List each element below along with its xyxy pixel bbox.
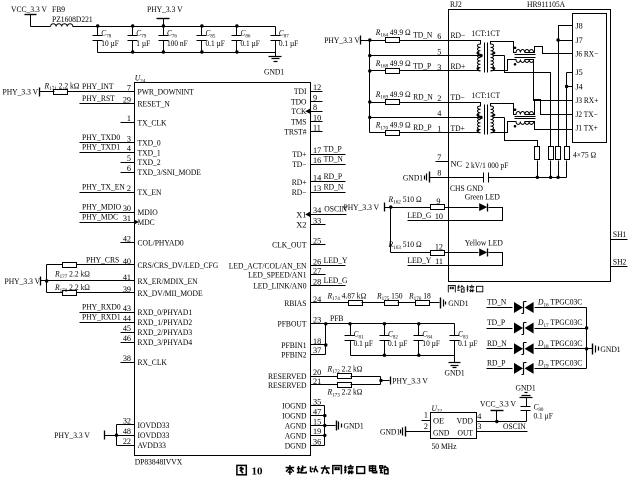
svg-text:AGND: AGND [285,431,307,440]
wire U22 pin1 OE stub [422,410,431,420]
power PHY_3.3V (RESERVED) [391,377,428,386]
pin 33 X2 [296,216,321,229]
svg-text:GND: GND [433,428,449,437]
wire PHY_INT to pin7 [40,82,135,92]
wire J8 J7 unused pair termination [556,26,572,147]
pin 25 CLK_OUT [272,236,321,249]
svg-text:LED_SPEED/AN1: LED_SPEED/AN1 [248,271,306,280]
wire PFBIN1 PFBIN2 tie [311,324,328,355]
pin 1 TX_CLK [127,114,167,127]
svg-text:TX_EN: TX_EN [138,188,162,197]
pin 32 IOVDD33 [123,417,170,430]
wire PHY_RXD0 [80,302,135,312]
pin 21 RESERVED [268,377,321,390]
svg-text:PFBIN1: PFBIN1 [281,341,306,350]
wire RX secondary bottom to choke [491,60,517,71]
wire RX secondary top to choke [491,42,517,53]
wire JTAG pin stubs 12 9 8 10 11 [311,92,323,132]
svg-text:TDO: TDO [291,97,307,106]
svg-text:1CT:1CT: 1CT:1CT [472,29,501,38]
svg-text:4: 4 [477,412,481,421]
wire RJ2 pin 4 [370,109,449,118]
power PHY_3.3V (IOVDD) [54,425,118,446]
resistor R170 49.9 ohm [375,121,411,136]
wire TX primary leads [449,103,483,133]
wire GND pins 35 47 15 19 36 [311,406,336,446]
resistor R178 2.2k [54,283,90,296]
svg-text:30: 30 [123,204,131,213]
wire pin42 stub [121,242,135,244]
svg-text:TD_P: TD_P [413,61,431,70]
svg-text:1: 1 [127,114,131,123]
svg-text:MDIO: MDIO [138,208,158,217]
svg-text:PZ1608D221: PZ1608D221 [52,15,93,24]
svg-text:PHY_3.3 V: PHY_3.3 V [344,203,380,212]
svg-text:OE: OE [433,416,444,425]
svg-text:3: 3 [437,63,441,72]
pin 43 RXD_0/PHYAD1 [123,304,192,317]
svg-text:HR911105A: HR911105A [527,0,565,9]
resistor RT1 75 ohm [535,147,540,160]
svg-text:PHY_TX_EN: PHY_TX_EN [82,182,125,191]
pin 42 COL/PHYAD0 [123,234,184,247]
svg-text:TCK: TCK [291,107,306,116]
svg-text:TXD_2: TXD_2 [138,158,161,167]
svg-text:RXD_0/PHYAD1: RXD_0/PHYAD1 [138,308,193,317]
svg-text:10: 10 [313,113,321,122]
wire pin32 [117,424,135,426]
svg-text:PHY_3.3 V: PHY_3.3 V [392,377,428,386]
svg-text:TDI: TDI [294,87,307,96]
wire SH1 shield [611,230,628,240]
svg-text:MDC: MDC [138,218,156,227]
wire RESERVED pins 20 21 [311,377,390,385]
resistor R169 49.9 ohm [375,90,411,105]
pin 22 AVDD33 [123,437,166,450]
svg-text:PHY_TXD1: PHY_TXD1 [82,143,120,152]
svg-text:RXD_2/PHYAD3: RXD_2/PHYAD3 [138,328,193,337]
svg-text:PHY_MDIO: PHY_MDIO [82,202,121,211]
svg-text:19: 19 [313,427,321,436]
capacitor C83 0.1 µF [450,324,478,356]
svg-text:34: 34 [313,206,321,215]
svg-text:10: 10 [252,466,264,478]
svg-text:RXD_3/PHYAD4: RXD_3/PHYAD4 [138,338,193,347]
oscillator U22 50MHz body [431,404,477,451]
pin 2 TX_EN [127,184,161,197]
wire pin27 stub [311,274,326,276]
svg-text:CRS/CRS_DV/LED_CFG: CRS/CRS_DV/LED_CFG [138,261,219,270]
capacitor C87 0.1 µF [271,27,299,53]
svg-text:PFBIN2: PFBIN2 [281,350,306,359]
svg-text:TD_P: TD_P [324,144,342,153]
svg-text:4: 4 [127,144,131,153]
svg-text:RESERVED: RESERVED [268,381,307,390]
wire RX choke to J6 [525,47,573,54]
pin 3 TXD_0 [127,134,161,147]
wire to RJ2 pin9 [391,197,449,208]
svg-text:X2: X2 [296,221,306,230]
svg-text:TD−: TD− [292,160,307,169]
svg-text:PHY_MDC: PHY_MDC [82,212,118,221]
wire RD_P TVS [487,359,587,369]
svg-text:12: 12 [313,83,321,92]
svg-text:GND1: GND1 [600,345,620,354]
svg-text:PHY_CRS: PHY_CRS [86,255,120,264]
ground GND1 (RBIAS) [441,298,469,309]
svg-text:2: 2 [127,184,131,193]
transformer T_RX 1CT:1CT [472,29,501,72]
svg-text:1CT:1CT: 1CT:1CT [472,91,501,100]
svg-text:J6 RX−: J6 RX− [576,50,599,59]
wire RD_P net stub pin14 [311,172,346,181]
wire RX choke to J3 [525,60,573,101]
svg-text:COL/PHYAD0: COL/PHYAD0 [138,238,184,247]
svg-text:PHY_3.3 V: PHY_3.3 V [147,5,183,14]
ferrite bead FB9 PZ1608D221 [51,5,93,26]
svg-text:RD_N: RD_N [413,92,433,101]
svg-text:RD+: RD+ [451,62,466,71]
svg-text:J2 TX−: J2 TX− [576,110,599,119]
wire J5 J4 unused pair termination [565,73,573,147]
RJ2 internal pin names [451,31,466,133]
wire TD_P net stub pin17 [311,144,346,154]
pin 48 IOVDD33 [123,427,170,440]
svg-text:0.1 µF: 0.1 µF [206,39,226,48]
svg-text:7: 7 [437,153,441,162]
ground GND1 (chassis cap) [403,169,449,183]
svg-text:J5: J5 [576,68,583,77]
svg-text:TXD_0: TXD_0 [138,138,161,147]
svg-text:3: 3 [127,134,131,143]
wire TD_N net stub pin16 [311,155,346,165]
label wangluojiekou [448,285,483,293]
power PHY_3.3V (decoupling rail) [147,5,183,26]
svg-text:12: 12 [435,242,443,251]
svg-text:10 µF: 10 µF [422,339,440,348]
svg-text:LED_G: LED_G [407,211,431,220]
power PHY_3.3V (LED) [344,203,393,253]
connector J1-J8 pin block [573,14,607,143]
resistor R176 18 [408,291,431,305]
svg-text:37: 37 [313,346,321,355]
wire pin39 [47,292,135,294]
power VCC_3.3V [11,5,47,26]
wire PHY_RST to pin29 [80,94,135,104]
svg-text:2 kV/1 000 pF: 2 kV/1 000 pF [466,161,509,170]
wire RJ2 pin 5 [370,47,449,56]
wire RX primary leads [449,41,483,71]
wire TX choke to J1 [525,122,573,130]
svg-text:0.1 µF: 0.1 µF [241,39,261,48]
svg-text:RXD_1/PHYAD2: RXD_1/PHYAD2 [138,318,193,327]
svg-text:IOVDD33: IOVDD33 [138,421,170,430]
capacitor C80 0.1uF [521,402,554,422]
svg-text:RD_P: RD_P [324,172,343,181]
svg-text:11: 11 [435,257,443,266]
pin 20 RESERVED [268,368,321,381]
pin 27 LED_SPEED/AN1 [248,267,321,280]
svg-text:GND1: GND1 [448,299,468,308]
svg-text:LED_LINK/AN0: LED_LINK/AN0 [253,281,306,290]
svg-text:9: 9 [436,197,440,206]
pin 35 IOGND [282,397,321,410]
svg-text:GND1: GND1 [445,368,465,377]
pin 47 IOGND [282,407,321,420]
svg-text:46: 46 [123,334,131,343]
wire net TD_P to RJ2 pin 3 [370,61,449,72]
pin 7 PWR_DOWNINT [127,84,194,97]
svg-text:1: 1 [437,125,441,134]
svg-text:4: 4 [437,109,441,118]
resistor R171 2.2k [44,81,80,94]
svg-text:6: 6 [437,32,441,41]
resistor R163 510 [388,240,445,255]
svg-text:31: 31 [123,214,131,223]
svg-text:TD+: TD+ [451,124,466,133]
resistor R172 2.2k [327,364,363,378]
pin 44 RXD_1/PHYAD2 [123,314,192,327]
svg-text:GND1: GND1 [380,428,400,437]
svg-text:42: 42 [123,234,131,243]
svg-text:2: 2 [437,94,441,103]
svg-text:RX_ER/MDIX_EN: RX_ER/MDIX_EN [138,277,198,286]
svg-text:DP83848IVVX: DP83848IVVX [135,458,183,467]
svg-text:RX_DV/MII_MODE: RX_DV/MII_MODE [138,289,203,298]
svg-text:1 µF: 1 µF [136,39,150,48]
svg-text:LED_ACT/COL/AN_EN: LED_ACT/COL/AN_EN [229,261,307,270]
LED green [449,192,503,220]
pin 31 MDC [123,214,155,227]
op-amp U1 IC U24 DP83848IVVX body [135,74,311,467]
pin 36 DGND [285,437,321,450]
wire net RD_N to RJ2 pin 2 [370,92,449,103]
svg-text:RD_N: RD_N [487,339,507,348]
svg-text:RD_P: RD_P [487,359,506,368]
label CHS GND [450,184,483,193]
svg-text:VCC_3.3 V: VCC_3.3 V [11,5,47,14]
svg-text:PHY_TXD0: PHY_TXD0 [82,133,120,142]
pin 15 AGND [285,417,321,430]
ground GND1 (chip GND pins) [337,421,364,431]
power PHY_3.3V (CRS pullups) [5,265,49,293]
svg-text:15: 15 [313,417,321,426]
svg-text:16: 16 [313,156,321,165]
svg-text:6: 6 [127,164,131,173]
svg-text:0.1 µF: 0.1 µF [388,339,408,348]
svg-text:TD+: TD+ [292,150,307,159]
wire PFB bottom rail [351,354,455,357]
pin 24 RBIAS [284,295,321,308]
wire RJ2 pin7 NC [436,153,463,169]
wire pin38 stub [121,362,135,364]
wire TVS common to ground [585,308,593,369]
wire pin41 [47,280,135,282]
svg-text:PHY_RXD0: PHY_RXD0 [82,302,121,311]
svg-text:0.1 µF: 0.1 µF [279,39,299,48]
wire PHY_TX_EN [80,182,135,192]
wire TX center tap termination [493,118,538,147]
wire LED_G net stub pin28 [311,276,348,286]
svg-text:AGND: AGND [285,421,307,430]
wire TX choke to J2 [525,100,573,115]
svg-text:29: 29 [123,95,131,104]
svg-text:13: 13 [313,184,321,193]
svg-text:10 µF: 10 µF [101,39,119,48]
svg-text:RBIAS: RBIAS [284,299,307,308]
capacitor C78 10 µF [93,27,120,53]
svg-text:SH2: SH2 [613,257,626,266]
wire pin46 stub [121,342,135,344]
svg-text:J3 RX+: J3 RX+ [576,96,599,105]
resistor R174 4.87k [327,291,367,305]
pin 6 TXD_3/SNI_MODE [127,164,201,177]
pin 12 TDI [294,83,321,96]
wire PFBOUT PFB rail [311,314,455,325]
svg-text:45: 45 [123,324,131,333]
svg-text:RD_N: RD_N [324,182,344,191]
svg-text:X1: X1 [296,210,306,219]
svg-text:LED_Y: LED_Y [407,256,431,265]
svg-text:38: 38 [123,354,131,363]
svg-text:J8: J8 [576,22,583,31]
resistor RT2 75 ohm [549,147,554,160]
pin 29 RESET_N [123,95,170,108]
pin 40 CRS/CRS_DV/LED_CFG [123,257,218,270]
wire TD_N TVS [487,298,587,308]
resistor R173 2.2k [327,383,363,399]
pin 41 RX_ER/MDIX_EN [123,273,198,286]
svg-text:1: 1 [424,410,428,419]
svg-text:LED_Y: LED_Y [324,256,348,265]
svg-text:J1 TX+: J1 TX+ [576,124,599,133]
svg-text:TD_N: TD_N [413,30,432,39]
svg-text:GND1: GND1 [344,422,364,431]
svg-text:43: 43 [123,304,131,313]
wire decoupling top rail [31,24,276,27]
svg-text:0.1 µF: 0.1 µF [354,339,374,348]
resistor R175 150 [376,291,402,305]
wire net TD_N to RJ2 pin 6 [370,30,449,41]
pin 26 LED_ACT/COL/AN_EN [229,257,321,270]
svg-text:TD_N: TD_N [487,298,506,307]
svg-text:TD−: TD− [451,93,466,102]
pin 39 RX_DV/MII_MODE [123,285,203,298]
wire net RD_P to RJ2 pin 1 [370,123,449,134]
pin 45 RXD_2/PHYAD3 [123,324,192,337]
transformer T_TX 1CT:1CT [472,91,501,134]
pin 4 TXD_1 [127,144,161,157]
wire pin25 CLK_OUT stub [311,244,326,246]
svg-text:Green LED: Green LED [465,192,500,201]
svg-text:PHY_3.3 V: PHY_3.3 V [5,277,41,286]
pin 28 LED_LINK/AN0 [253,277,321,290]
wire PHY_TXD0 [80,133,135,143]
wire TX secondary bottom to choke [491,122,517,133]
svg-text:GND1: GND1 [403,173,423,182]
wire termination rail to CHS [491,151,597,180]
pin 13 RD- [292,184,321,197]
svg-text:48: 48 [123,427,131,436]
svg-text:3: 3 [477,422,481,431]
svg-text:17: 17 [313,146,321,155]
capacitor C81 0.1 µF [345,324,374,356]
wire pin45 stub [121,332,135,334]
svg-text:100 nF: 100 nF [167,39,188,48]
capacitor C85 0.1 µF [197,27,226,53]
svg-text:0.1 µF: 0.1 µF [534,411,554,420]
capacitor C79 1 µF [128,27,151,53]
svg-text:PHY_3.3 V: PHY_3.3 V [3,88,39,97]
wire PHY_CRS pin40 [47,255,135,264]
svg-text:5: 5 [127,154,131,163]
wire decoupling bottom rail [98,50,276,53]
capacitor C86 0.1 µF [232,27,261,53]
svg-text:RESET_N: RESET_N [138,99,170,108]
svg-text:8: 8 [313,103,317,112]
power VCC_3.3V (U22 VDD pin4) [477,399,527,423]
wire pin5 stub [121,162,135,164]
ground GND1 (above C80) [516,383,536,401]
svg-text:Yellow LED: Yellow LED [465,238,503,247]
svg-text:OUT: OUT [458,428,474,437]
svg-text:GND1: GND1 [516,383,536,392]
resistor R162 510 [388,195,445,210]
wire RX center tap termination [493,56,551,147]
svg-text:RD+: RD+ [292,178,307,187]
svg-text:35: 35 [313,397,321,406]
wire OSCIN net stub pin34 X1 [311,205,348,215]
svg-text:8: 8 [437,169,441,178]
svg-text:PHY_3.3 V: PHY_3.3 V [324,36,360,45]
caption figure 10 local ethernet interface circuit [237,465,389,478]
svg-text:0.1 µF: 0.1 µF [458,339,478,348]
wire LED_Y net stub pin26 [311,256,348,266]
svg-text:LED_G: LED_G [324,276,348,285]
svg-text:RD−: RD− [292,188,307,197]
svg-text:VDD: VDD [457,416,473,425]
ground GND1 (U22 pin2) [380,422,431,437]
svg-text:PHY_RXD1: PHY_RXD1 [82,312,121,321]
wire pin6 stub [121,172,135,174]
connector RJ2 HR911105A body [449,0,611,281]
wire RD_N net stub pin13 [311,182,346,192]
TVS diode D19 TPGC03C [514,359,583,375]
svg-text:4×75 Ω: 4×75 Ω [573,151,596,160]
pin 18 PFBIN1 [281,337,321,350]
capacitor 2kV 1000pF [449,161,509,183]
svg-text:NC: NC [451,160,463,169]
pin 17 TD+ [292,146,321,159]
svg-text:J4: J4 [576,82,583,91]
svg-text:44: 44 [123,314,131,323]
resistor R168 49.9 ohm [375,59,411,74]
wire PHY_RXD1 [80,312,135,322]
svg-text:PHY_RST: PHY_RST [82,94,115,103]
TVS diode D18 TPGC03C [514,339,583,355]
wire TD_P TVS [487,318,587,328]
wire PHY_TXD1 [80,143,135,153]
pin 10 TMS [291,113,321,126]
resistor R177 2.2k [54,263,90,281]
svg-text:FB9: FB9 [52,5,65,14]
power PHY_3.3V (PHY_INT pullup) [3,88,40,97]
choke TX common-mode [514,108,536,127]
svg-text:TX_CLK: TX_CLK [138,118,167,127]
svg-text:50 MHz: 50 MHz [432,442,457,451]
ground GND1 (PFB) [445,356,465,378]
svg-text:RJ2: RJ2 [450,0,462,9]
